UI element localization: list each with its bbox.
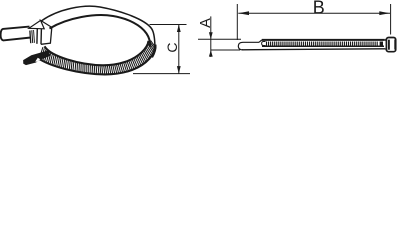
dimension A: leader line (210, 16, 212, 57)
band outer top edge (smooth back of strap) (42, 6, 155, 46)
tie band: ramp up to serrated top (259, 40, 262, 42)
tie band: rounded tip and top of tip (238, 42, 259, 50)
dimension B: left arrow (238, 11, 249, 15)
svg-text:A: A (198, 18, 214, 28)
tail tab (pill pointing left) (1, 27, 31, 41)
tie head slot wall (388, 40, 390, 50)
tooth strip bottom line (262, 45, 384, 47)
dimension C: up arrow (177, 25, 181, 33)
band inner top edge (50, 15, 151, 46)
dimension C: vertical dimension line (178, 25, 180, 74)
toothed inner face: inner edge (45, 41, 149, 66)
tooth strip capsule (262, 42, 266, 46)
tooth strip ticks (267, 42, 378, 46)
dimension A: bottom extension line (211, 49, 240, 51)
svg-text:C: C (164, 43, 180, 53)
dimension B: left extension line (236, 4, 238, 40)
tie head (right end) (385, 39, 387, 41)
dimension A: top extension line (198, 38, 241, 40)
tab teeth bars (dark) at head entrance (29, 30, 35, 43)
dimension A: up arrow onto bottom line (209, 50, 213, 57)
dimension C: top extension line (150, 24, 187, 26)
head block (3/4 view) (29, 20, 52, 28)
hatch ticks on toothed face (39, 41, 155, 75)
tie band: serrated top edge (262, 39, 385, 41)
tie band: bottom edge (242, 49, 385, 50)
dimension B: right arrow (379, 11, 390, 15)
dimension A: down arrow onto top line (209, 32, 213, 39)
dimension B: right extension line (390, 4, 392, 35)
dimension C: bottom extension line (133, 73, 190, 75)
svg-text:B: B (313, 0, 325, 18)
ring cap reinforcement (152, 45, 155, 57)
band tail wedge (dark, lower-left of head) (24, 51, 50, 65)
dimension B: horizontal dimension line (238, 12, 390, 14)
tooth strip end cap (solid) (380, 42, 383, 46)
dimension C: down arrow (177, 66, 181, 74)
toothed inner face: outer edge (38, 45, 156, 75)
